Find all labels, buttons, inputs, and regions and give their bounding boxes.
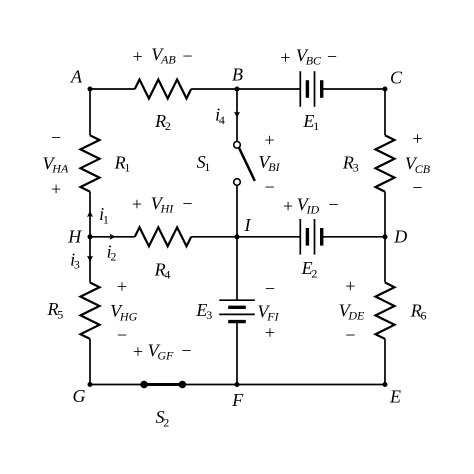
current arrow i4 xyxy=(234,112,240,118)
wire E3 to F xyxy=(236,322,238,385)
label V_DE xyxy=(339,276,365,345)
svg-text:+: + xyxy=(133,341,143,361)
wire H to R5 xyxy=(89,237,91,283)
svg-text:−: − xyxy=(412,177,422,197)
label V_HA xyxy=(43,127,69,199)
node F dot xyxy=(235,382,240,387)
battery E3 xyxy=(219,300,255,321)
label + V_GF - xyxy=(133,341,192,363)
svg-text:+: + xyxy=(283,196,293,216)
svg-text:H: H xyxy=(67,227,82,247)
svg-text:I: I xyxy=(244,215,252,235)
current arrow i2 xyxy=(110,234,116,240)
wire R1 to H xyxy=(89,192,91,237)
wire I to E3 xyxy=(236,237,238,300)
wire B to switch S1 xyxy=(236,89,238,142)
wire A to R1 xyxy=(89,89,91,135)
label V_FI xyxy=(257,278,279,342)
wire A to R2 xyxy=(90,88,135,90)
node H dot xyxy=(88,234,93,239)
wire B to E1 xyxy=(237,88,300,90)
resistor R6 xyxy=(376,283,395,339)
svg-text:+: + xyxy=(117,277,127,297)
wire E1 to C xyxy=(322,88,385,90)
label V_BI xyxy=(258,130,280,197)
svg-text:−: − xyxy=(345,325,355,345)
resistor R3 xyxy=(376,135,395,191)
current arrow i3 xyxy=(87,256,93,262)
node E dot xyxy=(383,382,388,387)
svg-text:+: + xyxy=(51,179,61,199)
wire S2 to F xyxy=(182,384,237,386)
svg-text:+: + xyxy=(345,276,355,296)
battery E2 xyxy=(300,219,321,255)
wire F to E xyxy=(237,384,385,386)
wire R2 to B xyxy=(191,88,237,90)
svg-text:A: A xyxy=(70,66,83,86)
svg-text:B: B xyxy=(232,64,243,84)
svg-text:+: + xyxy=(265,130,275,150)
node G dot xyxy=(88,382,93,387)
svg-text:+: + xyxy=(412,128,422,148)
current arrow i1 xyxy=(87,211,93,217)
node B dot xyxy=(235,87,240,92)
svg-text:+: + xyxy=(133,47,143,67)
wire E2 to D xyxy=(322,236,385,238)
svg-text:G: G xyxy=(73,386,86,406)
switch S2 closed xyxy=(140,381,186,389)
svg-text:−: − xyxy=(265,278,275,298)
resistor R4 xyxy=(135,227,191,246)
svg-text:E: E xyxy=(389,387,401,407)
label + V_ID - xyxy=(283,194,339,216)
resistor R1 xyxy=(81,135,100,191)
svg-text:F: F xyxy=(231,390,244,410)
wire H to R4 xyxy=(90,236,135,238)
label + V_HI - xyxy=(132,194,193,216)
svg-text:−: − xyxy=(182,194,192,214)
wire R3 to D xyxy=(384,192,386,237)
svg-text:C: C xyxy=(390,68,403,88)
switch S1 xyxy=(234,142,255,186)
node A dot xyxy=(88,87,93,92)
wire R6 to E xyxy=(384,339,386,385)
label + V_BC - xyxy=(280,46,337,68)
svg-text:−: − xyxy=(51,127,61,147)
svg-text:−: − xyxy=(328,194,338,214)
wire R5 to G xyxy=(89,339,91,385)
battery E1 xyxy=(300,71,321,107)
wire C to R3 xyxy=(384,89,386,135)
label + V_AB - xyxy=(133,45,193,67)
wire S1 to I xyxy=(236,185,238,237)
wire G to S2 xyxy=(90,384,144,386)
node C dot xyxy=(383,87,388,92)
svg-text:−: − xyxy=(265,177,275,197)
svg-text:+: + xyxy=(132,194,142,214)
label V_CB xyxy=(405,128,431,197)
svg-text:−: − xyxy=(117,325,127,345)
svg-text:−: − xyxy=(181,341,191,361)
svg-text:+: + xyxy=(280,47,290,67)
svg-text:−: − xyxy=(327,46,337,66)
wire R4 to I xyxy=(191,236,237,238)
label V_HG xyxy=(110,277,137,346)
resistor R2 xyxy=(135,80,191,99)
wire I to E2 xyxy=(237,236,300,238)
wire D to R6 xyxy=(384,237,386,283)
svg-text:+: + xyxy=(265,322,275,342)
resistor R5 xyxy=(81,283,100,339)
node I dot xyxy=(235,234,240,239)
svg-text:−: − xyxy=(182,46,192,66)
svg-text:D: D xyxy=(393,227,407,247)
node D dot xyxy=(383,234,388,239)
